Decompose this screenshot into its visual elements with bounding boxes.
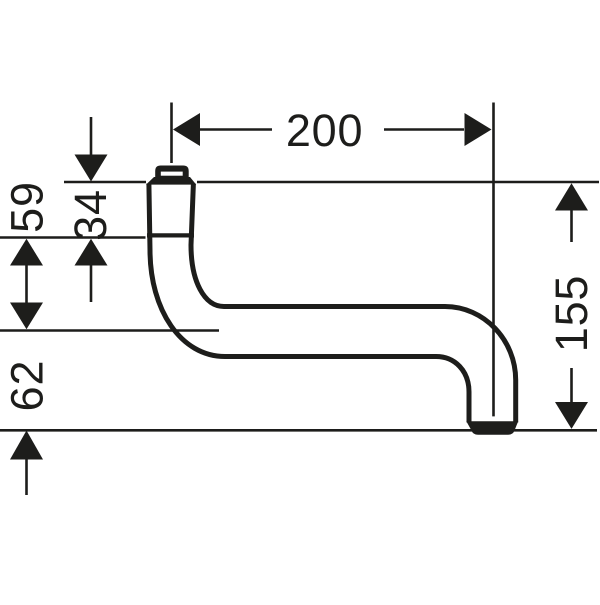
svg-text:200: 200 xyxy=(286,105,363,156)
svg-text:155: 155 xyxy=(546,275,597,352)
svg-text:59: 59 xyxy=(1,181,52,233)
svg-text:62: 62 xyxy=(2,360,53,412)
svg-text:34: 34 xyxy=(65,189,116,241)
